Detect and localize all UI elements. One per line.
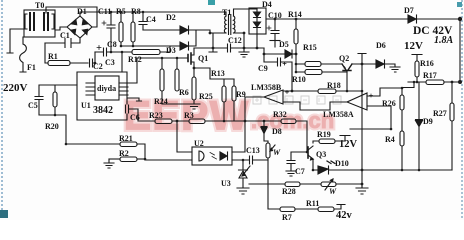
svg-text:F1: F1 bbox=[27, 63, 36, 72]
svg-text:Q3: Q3 bbox=[316, 150, 326, 159]
watermark left blue dotted border bbox=[1, 0, 3, 210]
svg-text:R21: R21 bbox=[119, 134, 133, 143]
transformer T0 bbox=[24, 1, 55, 37]
resistor R17 bbox=[408, 71, 460, 85]
resistor R23 bbox=[149, 111, 189, 124]
ground below W2 bbox=[356, 184, 368, 194]
svg-text:R9: R9 bbox=[236, 90, 246, 99]
feedback rail vertical bbox=[358, 54, 366, 189]
wire LM358A minus input bbox=[350, 106, 391, 129]
resistor R16 bbox=[412, 55, 434, 83]
wire U2 collector up bbox=[232, 121, 245, 152]
svg-text:R19: R19 bbox=[317, 130, 331, 139]
svg-text:R13: R13 bbox=[211, 69, 225, 78]
diode pair D4 bbox=[249, 0, 272, 34]
wire C6 to R23 bbox=[138, 109, 155, 121]
svg-text:W: W bbox=[273, 148, 281, 157]
resistor R20 bbox=[45, 85, 59, 131]
svg-text:R4: R4 bbox=[385, 135, 395, 144]
resistor R1 bbox=[48, 52, 88, 66]
svg-text:R15: R15 bbox=[303, 43, 317, 52]
op-amp LM358A bbox=[323, 93, 373, 119]
svg-text:C8: C8 bbox=[107, 40, 117, 49]
capacitor C9 bbox=[258, 54, 292, 91]
capacitor C6 bbox=[126, 105, 140, 122]
resistor R12 bbox=[128, 46, 170, 64]
svg-text:R20: R20 bbox=[45, 122, 59, 131]
svg-text:D7: D7 bbox=[404, 6, 414, 15]
svg-text:LM358A: LM358A bbox=[323, 110, 354, 119]
svg-text:C11: C11 bbox=[98, 7, 111, 16]
svg-text:U1: U1 bbox=[81, 101, 91, 110]
wire T0 to bridge bottom path bbox=[55, 27, 67, 30]
wire AC live to T0 bbox=[7, 29, 24, 53]
svg-text:D3: D3 bbox=[166, 46, 176, 55]
svg-text:C12: C12 bbox=[228, 36, 242, 45]
resistor R3 bbox=[184, 111, 245, 124]
svg-text:R12: R12 bbox=[128, 55, 142, 64]
IC U1 3842 outer box bbox=[77, 72, 127, 120]
diode D5 bbox=[257, 40, 296, 58]
capacitor C10 bbox=[267, 11, 282, 47]
wire T1 primary bottom bbox=[209, 33, 217, 52]
op-amp LM358B bbox=[251, 83, 289, 104]
svg-text:R1: R1 bbox=[48, 52, 58, 61]
watermark right blue dotted border bbox=[461, 0, 463, 220]
svg-text:C1: C1 bbox=[60, 31, 70, 40]
resistor R28 bbox=[282, 182, 321, 196]
potentiometer W2 bbox=[321, 179, 362, 196]
svg-text:D6: D6 bbox=[376, 41, 386, 50]
wire R23 node to U2 bbox=[177, 121, 192, 152]
svg-text:220V: 220V bbox=[3, 82, 28, 94]
diode D9 bbox=[416, 82, 433, 170]
ground below Q1 bbox=[162, 104, 200, 109]
node C2-C8 riser bbox=[94, 52, 96, 63]
resistor R7 bbox=[280, 207, 318, 222]
svg-text:C3: C3 bbox=[105, 58, 115, 67]
mosfet Q1 bbox=[186, 48, 208, 68]
resistor R24 bbox=[154, 58, 168, 106]
svg-text:12V: 12V bbox=[339, 139, 358, 150]
resistor R26 bbox=[382, 95, 404, 131]
svg-text:R10: R10 bbox=[292, 75, 306, 84]
wire R21 R2 to U2 bbox=[145, 159, 192, 161]
diode D3 bbox=[166, 30, 196, 55]
svg-text:diyda: diyda bbox=[97, 84, 116, 93]
ground below R2 bbox=[104, 159, 114, 168]
resistor R19 bbox=[317, 130, 350, 144]
diode D7 bbox=[404, 6, 417, 23]
resistor R25 bbox=[192, 68, 213, 104]
svg-text:D8: D8 bbox=[272, 127, 282, 136]
wire R20 node down bbox=[55, 115, 66, 144]
main top rail bbox=[266, 18, 460, 20]
resistor R2 bbox=[109, 149, 145, 162]
resistor R11 bbox=[306, 199, 345, 212]
bridge rectifier D1 bbox=[67, 7, 92, 38]
top-left rail bbox=[80, 11, 226, 13]
svg-text:R28: R28 bbox=[282, 187, 296, 196]
svg-text:R23: R23 bbox=[149, 111, 163, 120]
ground below C12 bbox=[239, 33, 249, 57]
wire T0 to bridge top path bbox=[46, 7, 97, 27]
capacitor C12 bbox=[213, 36, 244, 52]
svg-text:D2: D2 bbox=[166, 13, 176, 22]
svg-text:R16: R16 bbox=[420, 59, 434, 68]
transistor Q2 bbox=[339, 54, 352, 91]
resistor R8 bbox=[131, 7, 141, 46]
svg-text:3842: 3842 bbox=[93, 105, 113, 116]
svg-text:Q2: Q2 bbox=[339, 54, 349, 63]
wire LM358A plus input bbox=[367, 88, 402, 96]
svg-text:D10: D10 bbox=[335, 159, 349, 168]
resistor R15 bbox=[296, 43, 342, 67]
wire Q1 source node bbox=[194, 68, 234, 79]
capacitor C11 bbox=[98, 7, 115, 52]
wire C8 node to U1 box bbox=[121, 52, 123, 72]
wire bridge top to rail bbox=[79, 12, 81, 16]
svg-text:D5: D5 bbox=[279, 40, 289, 49]
svg-text:R2: R2 bbox=[119, 149, 129, 158]
regulator U3 bbox=[221, 160, 250, 194]
capacitor C1 bbox=[45, 31, 80, 48]
wire Q1 drain to T1 bbox=[194, 47, 213, 49]
resistor R32 bbox=[245, 110, 307, 152]
svg-text:C13: C13 bbox=[246, 146, 260, 155]
svg-text:42v: 42v bbox=[336, 210, 353, 220]
svg-text:U2: U2 bbox=[194, 139, 204, 148]
diode D2 bbox=[143, 13, 210, 34]
optocoupler U2 bbox=[192, 139, 232, 165]
diode D10 bbox=[313, 159, 452, 174]
fuse F1 bbox=[20, 37, 27, 72]
svg-text:C4: C4 bbox=[146, 15, 156, 24]
svg-text:1.8A: 1.8A bbox=[434, 35, 454, 46]
transistor Q3 bbox=[308, 146, 326, 160]
svg-text:R24: R24 bbox=[154, 97, 168, 106]
resistor R21 bbox=[66, 134, 145, 160]
svg-text:R18: R18 bbox=[327, 81, 341, 90]
wire LM358B output bbox=[245, 97, 264, 121]
svg-text:Q1: Q1 bbox=[198, 54, 208, 63]
svg-text:R27: R27 bbox=[433, 109, 447, 118]
wire Q3 collector to R19 bbox=[313, 141, 319, 143]
svg-text:R32: R32 bbox=[273, 110, 287, 119]
output divider rail bbox=[459, 19, 461, 82]
diode D6 bbox=[352, 41, 400, 72]
wire LM358B minus staircase bbox=[283, 102, 347, 110]
capacitor C5 loop bbox=[28, 85, 77, 115]
wire gate drive bbox=[137, 57, 186, 59]
svg-text:LM358B: LM358B bbox=[251, 83, 282, 92]
capacitor C2 bbox=[90, 59, 103, 71]
resistor R14 bbox=[288, 10, 302, 54]
svg-text:C7: C7 bbox=[295, 167, 305, 176]
svg-text:12V: 12V bbox=[404, 40, 423, 52]
svg-text:R25: R25 bbox=[199, 92, 213, 101]
svg-text:R26: R26 bbox=[382, 99, 396, 108]
svg-text:R17: R17 bbox=[423, 71, 437, 80]
svg-text:D4: D4 bbox=[262, 0, 272, 9]
resistor R5 bbox=[116, 7, 126, 46]
transformer T1 bbox=[210, 8, 257, 35]
svg-text:T0: T0 bbox=[35, 1, 44, 10]
wire R17 tap L bbox=[402, 82, 414, 95]
node C12-D4 bbox=[244, 47, 264, 49]
diode D8 bbox=[261, 121, 282, 143]
svg-text:R14: R14 bbox=[288, 10, 302, 19]
IC U1 inner box bbox=[86, 76, 142, 101]
wire D4 bottom to D5 bbox=[256, 34, 258, 48]
svg-text:T1: T1 bbox=[222, 8, 231, 17]
capacitor C8 bbox=[95, 40, 132, 56]
wire R5 R8 bottoms to D3 bbox=[121, 45, 180, 47]
capacitor C7 bbox=[286, 152, 307, 176]
svg-text:C9: C9 bbox=[258, 64, 268, 73]
resistor R13 bbox=[211, 69, 226, 121]
capacitor C4 bbox=[139, 12, 156, 30]
resistor R4 bbox=[385, 131, 404, 170]
resistor R18 bbox=[318, 81, 362, 94]
capacitor C13 bbox=[232, 146, 268, 164]
resistor R27 bbox=[433, 82, 454, 170]
wire 3842 output to gate bbox=[128, 58, 137, 83]
potentiometer W bbox=[266, 143, 281, 209]
resistor R10 bbox=[292, 64, 347, 84]
watermark gray chinese bbox=[253, 96, 341, 104]
wire C1 to R1 loop bbox=[45, 43, 48, 63]
svg-text:R7: R7 bbox=[282, 213, 292, 220]
svg-text:R3: R3 bbox=[184, 111, 194, 120]
svg-text:D9: D9 bbox=[423, 117, 433, 126]
wire LM358B plus rail bbox=[283, 90, 318, 92]
svg-text:W: W bbox=[329, 187, 337, 196]
svg-text:R11: R11 bbox=[306, 199, 319, 208]
svg-text:U3: U3 bbox=[221, 179, 231, 188]
wire pot2 rail bbox=[249, 183, 285, 185]
resistor R6 bbox=[175, 58, 189, 97]
svg-text:C5: C5 bbox=[28, 101, 38, 110]
svg-text:R6: R6 bbox=[179, 88, 189, 97]
resistor R9 bbox=[232, 79, 246, 121]
